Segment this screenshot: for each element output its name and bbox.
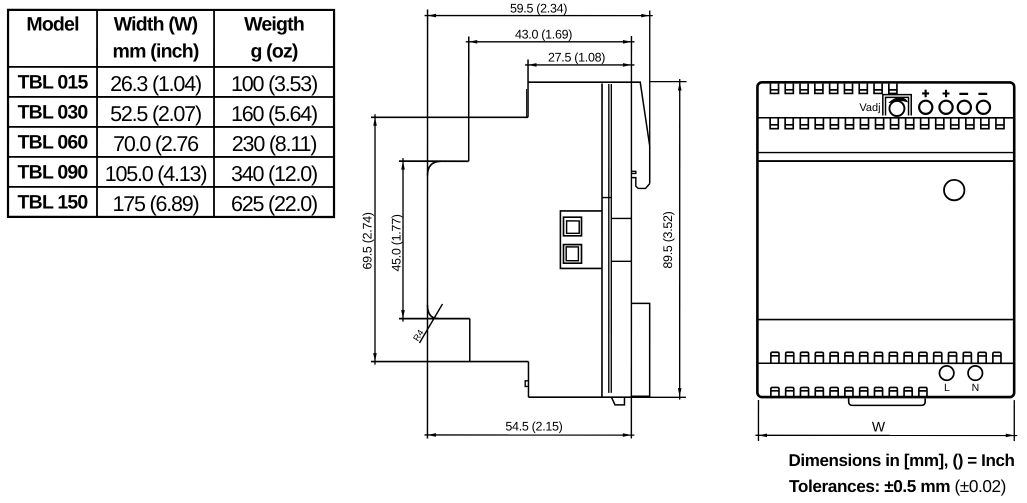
side view lower step vertical — [469, 319, 471, 362]
svg-text:105.0 (4.13): 105.0 (4.13) — [105, 162, 207, 186]
dimension 89.5 (3.52) right — [661, 79, 682, 400]
side view din rail recess top — [611, 217, 631, 219]
side view din plate rear line / extension — [630, 36, 632, 438]
side view front face / extension line — [426, 9, 428, 438]
front view LED indicator — [944, 180, 964, 200]
side view lower step horizontal — [399, 318, 470, 320]
svg-text:TBL 060: TBL 060 — [18, 132, 89, 154]
svg-text:Tolerances: ±0.5 mm (±0.02): Tolerances: ±0.5 mm (±0.02) — [789, 476, 1006, 496]
dimension 45.0 (1.77) — [389, 158, 404, 321]
svg-text:g (oz): g (oz) — [250, 40, 297, 62]
side view din rail recess bottom — [611, 260, 631, 262]
svg-text:43.0 (1.69): 43.0 (1.69) — [515, 28, 572, 42]
svg-text:89.5 (3.52): 89.5 (3.52) — [661, 211, 675, 268]
side view upper step vertical / extension (43.0) — [468, 36, 470, 161]
svg-text:mm (inch): mm (inch) — [113, 40, 199, 62]
front view Vadj potentiometer — [889, 101, 904, 116]
front view line above bottom band — [757, 362, 1014, 364]
side view top edge — [528, 81, 641, 83]
svg-text:Dimensions in [mm], () = Inch: Dimensions in [mm], () = Inch — [789, 451, 1015, 470]
front view vent slots row 3 — [771, 352, 1001, 363]
svg-text:230 (8.11): 230 (8.11) — [232, 132, 316, 156]
front view terminal polarity marks + + - - — [922, 90, 929, 98]
svg-text:TBL 015: TBL 015 — [18, 72, 89, 94]
front view separator line below Vadj row — [757, 117, 1014, 119]
dimension 27.5 (1.08) — [525, 51, 634, 67]
svg-text:L: L — [944, 382, 950, 394]
dimension 59.5 (2.34) top — [425, 1, 653, 146]
svg-text:TBL 090: TBL 090 — [18, 162, 89, 184]
front view Vadj pot slot wedge — [889, 98, 908, 103]
side view terminal block outline — [560, 211, 602, 269]
side view rear slant edge — [640, 82, 650, 146]
table: model/width/weight specification table — [8, 10, 334, 217]
side view rear clip hook — [632, 178, 650, 189]
svg-text:26.3 (1.04): 26.3 (1.04) — [110, 72, 201, 96]
side view body rear face — [601, 84, 603, 397]
side view rear clip notch — [632, 171, 636, 173]
svg-text:340 (12.0): 340 (12.0) — [231, 162, 317, 186]
dimension 69.5 (2.74) left — [360, 114, 376, 364]
side view: unit body outline — [371, 9, 687, 438]
svg-text:100 (3.53): 100 (3.53) — [231, 72, 317, 96]
front view thin line under slot band — [757, 152, 1014, 154]
front view mid panel top line — [757, 160, 1014, 162]
front view vent slots row 4 — [771, 387, 927, 396]
svg-text:W: W — [872, 419, 886, 435]
svg-text:27.5 (1.08): 27.5 (1.08) — [548, 51, 605, 65]
svg-text:52.5 (2.07): 52.5 (2.07) — [110, 102, 201, 126]
svg-text:Width (W): Width (W) — [114, 13, 198, 35]
svg-text:70.0 (2.76: 70.0 (2.76 — [113, 132, 199, 156]
R4 fillet leader and label — [411, 304, 442, 343]
svg-text:69.5 (2.74): 69.5 (2.74) — [360, 212, 374, 269]
svg-text:54.5 (2.15): 54.5 (2.15) — [505, 420, 562, 434]
front view output terminals — [919, 101, 932, 114]
side view bottom edge — [528, 396, 631, 398]
side view small tab on bottom front — [525, 381, 528, 387]
dimension W bottom of front view — [755, 400, 1017, 441]
svg-text:Vadj: Vadj — [859, 102, 880, 114]
side view bottom foot — [611, 397, 624, 405]
side view terminal 2 — [563, 245, 581, 264]
side view front bottom fillet R4 — [427, 305, 438, 319]
svg-text:TBL 150: TBL 150 — [18, 192, 89, 214]
side view front top fillet — [428, 161, 442, 175]
dimension 54.5 (2.15) bottom — [424, 420, 634, 437]
side view bottom front vertical — [527, 362, 529, 398]
front view vent slots row 1 — [770, 84, 897, 94]
front view input terminals L N — [939, 366, 953, 380]
side view rear vertical edge — [649, 146, 651, 184]
side view lower rear block — [632, 303, 650, 396]
side view terminal 1 — [564, 217, 582, 236]
front view vent slots row 2 — [770, 118, 1004, 128]
side view top step horizontal / extension (69.5) — [371, 116, 528, 118]
side view din plate front lines — [608, 84, 610, 393]
side view bottom extension line (89.5) — [631, 396, 686, 398]
svg-text:TBL 030: TBL 030 — [18, 102, 89, 124]
side view top extension line (89.5) — [650, 81, 687, 83]
svg-text:Model: Model — [26, 13, 79, 35]
front view outer case — [757, 82, 1014, 397]
side view small step tick near din plate — [602, 197, 611, 199]
svg-text:160 (5.64): 160 (5.64) — [231, 102, 317, 126]
front view bottom din clip tab — [849, 398, 926, 405]
front view Vadj potentiometer bracket — [883, 95, 911, 116]
dimension 43.0 (1.69) — [466, 28, 635, 44]
side view front-top corner vertical / extension (27.5) — [527, 60, 529, 118]
svg-text:59.5 (2.34): 59.5 (2.34) — [510, 1, 567, 15]
front view mid panel bottom line — [757, 319, 1014, 321]
svg-text:Weigth: Weigth — [244, 13, 304, 35]
side view upper step horizontal — [399, 160, 469, 162]
svg-text:625 (22.0): 625 (22.0) — [231, 192, 317, 216]
side view bottom step horizontal / extension (69.5) — [371, 361, 528, 363]
svg-text:45.0 (1.77): 45.0 (1.77) — [389, 214, 403, 271]
svg-text:N: N — [972, 382, 980, 394]
svg-text:175 (6.89): 175 (6.89) — [112, 192, 198, 216]
